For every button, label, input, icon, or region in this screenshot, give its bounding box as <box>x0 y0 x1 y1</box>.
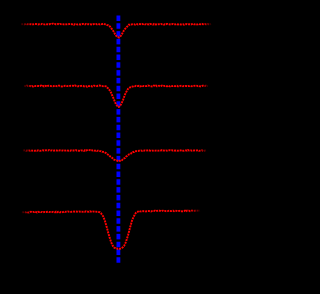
red dotted spectral line: epoch 4 profile (panel 4), continuum y=211.4, absorption dip centered x=118.5 <box>22 211 200 249</box>
figure: four stacked absorption-line profiles (red dotted) with vertical blue dashed line marking line centre <box>0 0 224 294</box>
red dotted spectral line: epoch 3 profile (panel 3), continuum y=150.5, absorption dip centered x=118.5 <box>23 150 206 161</box>
black background <box>0 0 224 294</box>
red dotted spectral line: epoch 2 profile (panel 2), continuum y=86.0, absorption dip centered x=118.5 <box>24 85 208 106</box>
red dotted spectral line: epoch 1 profile (panel 1), continuum y=24.2, absorption dip centered x=118.5 <box>21 24 211 38</box>
blue vertical dashed marker line at line centre x=118.5 <box>117 16 121 264</box>
